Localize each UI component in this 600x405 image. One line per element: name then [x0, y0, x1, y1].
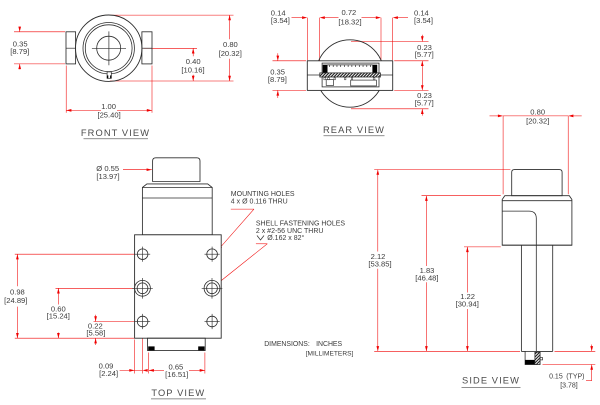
svg-text:[20.32]: [20.32] [219, 49, 242, 58]
svg-text:MOUNTING HOLES: MOUNTING HOLES [231, 191, 295, 198]
svg-text:SIDE VIEW: SIDE VIEW [462, 375, 520, 385]
svg-text:[15.24]: [15.24] [47, 311, 70, 320]
svg-text:[18.32]: [18.32] [338, 18, 361, 27]
svg-text:[2.24]: [2.24] [99, 369, 118, 378]
svg-text:0.72: 0.72 [342, 8, 357, 17]
svg-text:[5.77]: [5.77] [415, 99, 434, 108]
svg-text:[53.85]: [53.85] [368, 260, 391, 269]
svg-text:4 x Ø 0.116 THRU: 4 x Ø 0.116 THRU [231, 199, 288, 206]
svg-text:INCHES: INCHES [316, 341, 342, 348]
svg-text:Ø.162 x 82°: Ø.162 x 82° [267, 234, 304, 242]
svg-text:0.15 (TYP): 0.15 (TYP) [549, 374, 584, 381]
svg-text:[46.48]: [46.48] [415, 274, 438, 283]
svg-text:DIMENSIONS:: DIMENSIONS: [264, 341, 310, 348]
svg-text:2 x #2-56 UNC THRU: 2 x #2-56 UNC THRU [256, 228, 324, 235]
svg-text:[3.78]: [3.78] [560, 382, 578, 389]
svg-text:[20.32]: [20.32] [526, 117, 549, 126]
svg-text:REAR VIEW: REAR VIEW [323, 125, 385, 135]
svg-text:FRONT VIEW: FRONT VIEW [81, 128, 150, 138]
svg-text:[3.54]: [3.54] [414, 16, 433, 25]
svg-text:[5.77]: [5.77] [415, 50, 434, 59]
svg-text:0.80: 0.80 [530, 108, 545, 117]
svg-text:0.80: 0.80 [223, 40, 238, 49]
svg-text:[5.58]: [5.58] [86, 328, 105, 337]
svg-text:[16.51]: [16.51] [165, 370, 188, 379]
svg-text:[30.94]: [30.94] [456, 300, 479, 309]
svg-text:SHELL FASTENING HOLES: SHELL FASTENING HOLES [256, 221, 346, 228]
svg-text:[MILLIMETERS]: [MILLIMETERS] [306, 350, 354, 357]
svg-text:TOP VIEW: TOP VIEW [151, 388, 205, 398]
svg-text:[8.79]: [8.79] [268, 75, 287, 84]
svg-text:[8.79]: [8.79] [10, 47, 29, 56]
svg-text:[3.54]: [3.54] [271, 16, 290, 25]
svg-text:[24.89]: [24.89] [4, 296, 27, 305]
svg-text:[10.16]: [10.16] [181, 65, 204, 74]
svg-text:[13.97]: [13.97] [96, 172, 119, 181]
svg-text:[25.40]: [25.40] [97, 110, 120, 119]
